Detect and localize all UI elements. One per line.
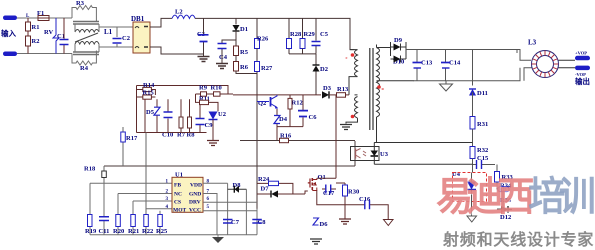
svg-text:输入: 输入 xyxy=(1,28,16,38)
svg-text:o: o xyxy=(382,86,385,91)
output rail top xyxy=(406,50,517,54)
ground (aux) xyxy=(340,125,352,130)
svg-text:R25: R25 xyxy=(156,228,168,235)
svg-text:6: 6 xyxy=(207,197,210,202)
SEC15: gate drive xyxy=(257,95,393,244)
svg-text:R29: R29 xyxy=(304,31,316,38)
SEC2: EMI choke xyxy=(72,0,133,72)
wire L1 to DB1 top xyxy=(99,26,133,28)
secondary pin top xyxy=(377,47,391,49)
secondary winding xyxy=(377,45,380,118)
wire L1 to DB1 bottom xyxy=(99,46,133,48)
wire fb bus y166 xyxy=(104,165,355,167)
bottom rail xyxy=(90,234,257,236)
svg-text:C15: C15 xyxy=(477,155,489,162)
wire pin7 GND xyxy=(203,194,217,235)
svg-text:C14: C14 xyxy=(449,60,461,67)
SEC16: bottom rail xyxy=(85,183,257,243)
wire pin1 FB xyxy=(90,182,172,184)
resistor R33 xyxy=(496,165,498,172)
svg-text:CS: CS xyxy=(174,200,181,206)
SEC1: input xyxy=(1,10,72,56)
svg-text:GND: GND xyxy=(189,192,201,198)
svg-text:R30: R30 xyxy=(348,189,359,196)
wire L3 to out bottom xyxy=(559,67,576,69)
wire pin5 VCC xyxy=(203,210,257,212)
wire gate join xyxy=(293,191,308,194)
polarity dot aux xyxy=(351,115,355,119)
svg-text:R9: R9 xyxy=(199,84,208,91)
svg-text:R2: R2 xyxy=(32,38,40,45)
wire LED loop top xyxy=(374,142,472,144)
ground (output, earth) xyxy=(445,81,447,84)
svg-text:C6: C6 xyxy=(309,114,318,121)
svg-text:D6: D6 xyxy=(320,221,329,228)
watermark text pink xyxy=(436,177,594,217)
SEC11: Q2 stage xyxy=(240,95,355,143)
svg-text:D5: D5 xyxy=(146,109,155,116)
SEC13: left references xyxy=(84,127,146,235)
resistor R29 xyxy=(302,18,304,38)
svg-text:R19: R19 xyxy=(85,228,97,235)
resistor R32 xyxy=(470,147,475,159)
SEC3: bridge + filter xyxy=(131,9,354,220)
resistor R22 xyxy=(144,215,149,227)
primary winding top xyxy=(355,50,358,77)
svg-text:5: 5 xyxy=(207,205,210,210)
svg-text:C4: C4 xyxy=(219,54,228,61)
secondary pin tap xyxy=(377,80,415,82)
wire left block xyxy=(89,183,91,234)
capacitor C11 xyxy=(103,183,105,234)
wire U3 frame right xyxy=(354,141,356,166)
watermark text red xyxy=(443,226,595,250)
wire input top xyxy=(17,17,72,19)
svg-text:C2: C2 xyxy=(122,35,130,42)
wire DB1 to gnd rail xyxy=(150,47,204,54)
resistor R31 xyxy=(470,117,475,130)
svg-text:Q1: Q1 xyxy=(318,174,326,181)
ground (bottom rail) xyxy=(217,235,219,237)
svg-text:R32: R32 xyxy=(477,147,488,154)
svg-text:D2: D2 xyxy=(320,66,328,73)
input terminal N xyxy=(3,52,17,57)
input terminal L xyxy=(3,16,17,21)
SEC12: optocoupler U3 xyxy=(104,141,473,166)
node D9 out xyxy=(405,42,407,59)
svg-text:R28: R28 xyxy=(290,31,302,38)
resistor R26 xyxy=(256,18,258,38)
wire source down xyxy=(317,191,345,205)
output terminal - xyxy=(575,66,590,71)
wire Q2 emitter to R16 bus xyxy=(276,133,278,140)
wire R2 down xyxy=(27,46,29,54)
svg-text:R27: R27 xyxy=(261,65,273,72)
resistor R6 xyxy=(234,62,239,72)
svg-text:MOT: MOT xyxy=(173,208,186,214)
polarity dot primary xyxy=(351,53,355,57)
output terminal + xyxy=(575,56,590,61)
svg-text:c: c xyxy=(346,55,348,60)
primary pin mid xyxy=(349,77,358,95)
svg-text:R18: R18 xyxy=(84,166,96,173)
svg-text:NC: NC xyxy=(174,192,182,198)
wire main rail xyxy=(195,18,354,49)
wire R32 down xyxy=(472,159,474,173)
wire D11-R31 xyxy=(472,92,474,116)
wire cluster bottom xyxy=(289,53,316,55)
core xyxy=(370,48,373,130)
svg-text:R5: R5 xyxy=(240,49,249,56)
svg-text:+VOP: +VOP xyxy=(575,51,587,56)
resistor R19 xyxy=(88,215,93,227)
svg-text:C11: C11 xyxy=(99,228,110,235)
wire R12 C6 bottom xyxy=(277,126,303,128)
SEC5: transformer T1 xyxy=(340,45,414,143)
svg-text:D4: D4 xyxy=(279,116,288,123)
wire drain xyxy=(317,177,336,179)
opto U3 xyxy=(351,147,380,161)
fuse F1 xyxy=(38,16,49,21)
svg-text:输出: 输出 xyxy=(575,76,590,86)
svg-text:R12: R12 xyxy=(292,100,303,107)
ground (U4, earth) xyxy=(467,216,477,222)
svg-text:R17: R17 xyxy=(126,135,138,142)
wire pin6 DRV xyxy=(203,201,257,203)
svg-text:D11: D11 xyxy=(477,90,488,97)
resistor R35 xyxy=(497,182,498,189)
wire pin8 VDD xyxy=(203,182,228,184)
node L xyxy=(27,18,29,22)
wire input bottom xyxy=(17,53,72,55)
ground (Q1 source) xyxy=(339,219,351,224)
svg-text:C17: C17 xyxy=(323,190,335,197)
svg-text:RV: RV xyxy=(44,29,53,36)
SEC8: U4 shunt regulator xyxy=(452,165,513,223)
svg-text:C5: C5 xyxy=(320,31,329,38)
resistor R20 xyxy=(117,194,119,235)
svg-text:FB: FB xyxy=(174,183,181,189)
svg-text:VCC: VCC xyxy=(189,208,201,214)
SEC9: L3 and output xyxy=(490,39,590,86)
bus x227.6 xyxy=(227,183,229,218)
svg-text:D9: D9 xyxy=(394,37,403,44)
resistor R1 xyxy=(26,22,31,31)
wire pin4 xyxy=(146,208,172,210)
aux winding xyxy=(355,95,358,118)
diode D12 xyxy=(501,206,508,213)
ground (C16, earth) xyxy=(384,220,394,226)
SEC4: startup cluster R28 R29 C5 D2 xyxy=(287,18,329,95)
SEC7: secondary rectifier and output xyxy=(391,37,521,173)
ground (D6) xyxy=(310,239,322,244)
svg-text:R6: R6 xyxy=(240,64,249,71)
svg-text:L1: L1 xyxy=(104,28,113,36)
bus y94.9 xyxy=(233,94,321,96)
svg-text:R1: R1 xyxy=(32,24,40,31)
resistor R27 xyxy=(255,62,260,72)
svg-text:DRV: DRV xyxy=(189,200,201,206)
polarity dot secondary xyxy=(377,85,381,89)
svg-text:R21: R21 xyxy=(128,228,139,235)
svg-text:R10: R10 xyxy=(211,84,222,91)
secondary pin bottom xyxy=(374,117,376,143)
wire drain up xyxy=(335,95,337,178)
svg-text:R13: R13 xyxy=(337,86,349,93)
resistor R28 xyxy=(288,18,290,38)
svg-text:R20: R20 xyxy=(113,228,124,235)
wire to L3 bottom xyxy=(524,68,532,81)
wire L3 to out top xyxy=(559,59,576,61)
wire D8 down xyxy=(245,189,247,235)
resistor R5 xyxy=(234,46,239,56)
wire rail to primary pin xyxy=(350,49,358,51)
wire R26-R27 xyxy=(256,49,258,62)
wire D2 down xyxy=(315,72,317,95)
wire to L3 top xyxy=(490,50,531,61)
SEC10: feedback cluster xyxy=(137,82,234,146)
wire R1-R2 xyxy=(27,31,29,36)
bus x257 down xyxy=(256,72,258,220)
svg-text:D7: D7 xyxy=(261,186,270,193)
diode D2 xyxy=(315,54,317,65)
wire cluster left xyxy=(136,86,138,133)
svg-text:U3: U3 xyxy=(380,151,389,158)
svg-text:R26: R26 xyxy=(257,36,269,43)
wire cluster bottom xyxy=(137,132,207,134)
resistor R2 xyxy=(26,36,31,46)
svg-text:VDD: VDD xyxy=(190,183,202,189)
wire cluster top xyxy=(137,86,229,95)
zener D11 xyxy=(472,50,474,86)
ground (U2) xyxy=(207,141,219,146)
svg-text:C9: C9 xyxy=(205,122,214,129)
opto LED xyxy=(371,151,379,157)
wire R35 down xyxy=(497,192,503,209)
svg-text:R31: R31 xyxy=(477,121,488,128)
SEC6: snubber xyxy=(233,85,349,99)
svg-text:R22: R22 xyxy=(142,228,153,235)
SEC14: controller U1 xyxy=(90,172,266,235)
svg-text:F1: F1 xyxy=(37,10,44,17)
svg-text:L2: L2 xyxy=(175,9,183,16)
svg-text:L3: L3 xyxy=(528,39,537,47)
node D9 in xyxy=(390,42,392,56)
bus x146 xyxy=(145,133,147,235)
resistor R25 xyxy=(159,211,161,235)
wire pin2 xyxy=(118,193,172,195)
svg-text:R4: R4 xyxy=(80,65,89,72)
wire pin3 xyxy=(133,201,172,214)
resistor R21 xyxy=(132,227,134,235)
wire DB1 to rail xyxy=(150,18,172,27)
svg-text:C13: C13 xyxy=(421,60,433,67)
output rail bottom xyxy=(414,68,521,81)
ground (C4) xyxy=(216,64,228,69)
ground (C3) xyxy=(198,57,210,62)
svg-text:U2: U2 xyxy=(218,111,226,118)
svg-text:D3: D3 xyxy=(323,85,332,92)
wire R31-R32 xyxy=(472,129,474,147)
wire LED loop bottom xyxy=(374,163,472,165)
svg-text:D1: D1 xyxy=(240,26,248,33)
wire aux to ground xyxy=(346,118,358,124)
